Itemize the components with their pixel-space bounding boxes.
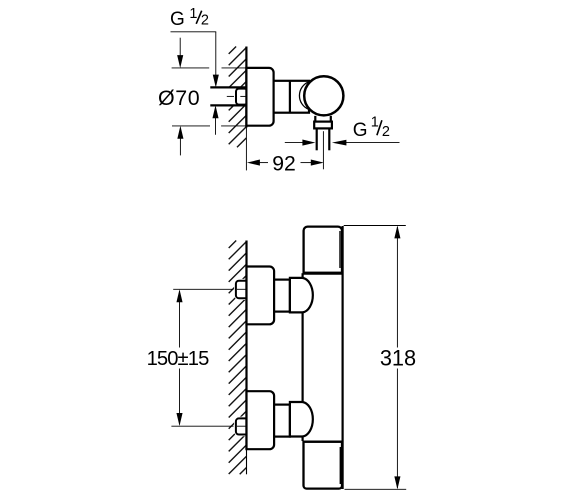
318 dim upper arrowhead <box>394 225 400 238</box>
upper union escutcheon <box>247 267 275 325</box>
G1/2 arrow down to pipe top <box>213 75 219 88</box>
150 dim upper extension line <box>173 288 233 290</box>
318 dim line upper part <box>396 227 398 348</box>
svg-text:2: 2 <box>201 13 209 29</box>
wall union nut (top view) <box>236 89 247 105</box>
outlet axis extension line <box>322 131 324 169</box>
92 dim right arrow <box>301 162 313 164</box>
150 dim line upper part <box>179 291 181 348</box>
lower union connector <box>274 405 290 437</box>
outlet nut <box>314 122 332 129</box>
D70 bottom arrow (up) <box>177 126 183 139</box>
wall edge extension line for 92 dim <box>245 128 247 171</box>
thermostat knob circle <box>304 76 343 115</box>
318 dim lower arrowhead <box>394 476 400 489</box>
pipe axis dash left <box>227 95 234 97</box>
escutcheon flange (top view) <box>246 68 273 126</box>
150 dim lower extension line <box>171 425 233 427</box>
neck divider line <box>289 81 291 113</box>
D70 bottom extension line segs <box>172 125 210 127</box>
pipe axis dash in nut <box>240 95 245 97</box>
G1/2 up-arrow tail <box>215 117 217 135</box>
D70 top arrow (down) <box>179 38 181 57</box>
body left edge segments <box>302 273 304 278</box>
G1/2 right arrow pointing right at hose <box>302 140 315 146</box>
318 top extension line <box>344 225 406 227</box>
inlet pipe top line <box>210 86 246 88</box>
D70 top extension line segs <box>172 67 210 69</box>
body right edge <box>342 226 344 489</box>
body tube <box>303 226 343 490</box>
svg-text:1: 1 <box>371 115 379 131</box>
G1/2 top leader vertical <box>215 32 217 76</box>
150 dim upper arrowhead <box>176 289 182 302</box>
wall hatch (top view) <box>229 47 247 148</box>
G1/2 top label slash <box>196 11 202 24</box>
wall surface edge (top view) <box>245 47 247 128</box>
svg-text:92: 92 <box>272 153 296 176</box>
G1/2 right arrow pointing left at hose <box>332 140 347 146</box>
shower hose left edge <box>316 129 318 150</box>
G1/2 right label slash <box>377 120 382 135</box>
svg-text:150±15: 150±15 <box>147 348 209 370</box>
lower union bell <box>290 402 313 437</box>
svg-text:2: 2 <box>382 124 390 140</box>
svg-text:G: G <box>170 9 185 30</box>
shower hose right edge <box>328 129 330 150</box>
G1/2 arrow up to pipe bottom <box>212 105 218 118</box>
318 bottom extension line <box>345 488 407 490</box>
upper union bell <box>290 278 313 313</box>
svg-text:Ø70: Ø70 <box>158 86 200 110</box>
upper axis dash in nut <box>237 288 246 290</box>
inlet pipe bottom line <box>210 104 246 106</box>
lower union escutcheon <box>247 391 275 449</box>
bottom cap <box>304 442 343 489</box>
wall surface edge (bottom view) <box>245 241 247 450</box>
svg-text:G: G <box>353 120 368 141</box>
top cap bottom thick line <box>303 272 343 275</box>
bottom cap top line <box>303 441 343 443</box>
top cap <box>304 227 342 273</box>
G1/2 top leader horizontal <box>171 31 217 33</box>
svg-text:318: 318 <box>380 345 416 370</box>
150 dim line lower part <box>179 369 181 425</box>
body neck (top view) <box>274 81 309 113</box>
G1/2 right leader right segment <box>344 142 400 144</box>
outlet ring below knob <box>315 116 331 121</box>
92 dim left arrow <box>247 160 260 166</box>
upper union wall nut <box>236 281 250 299</box>
G1/2 top label text <box>170 6 209 30</box>
svg-text:1: 1 <box>189 6 197 22</box>
top cap inner highlight line <box>339 231 341 268</box>
lower union wall nut <box>236 418 250 434</box>
bottom cap inner highlight line <box>339 447 341 484</box>
G1/2 right label text <box>353 115 390 142</box>
wall hatch (bottom view) <box>229 241 247 475</box>
knob skirt arc <box>299 82 308 110</box>
inlet pipe white interior <box>210 87 246 105</box>
lower axis dash in nut <box>237 425 246 427</box>
318 dim line lower part <box>396 369 398 489</box>
upper union connector <box>274 280 290 312</box>
150 dim lower arrowhead <box>176 413 182 426</box>
G1/2 right leader left segment <box>285 142 303 144</box>
